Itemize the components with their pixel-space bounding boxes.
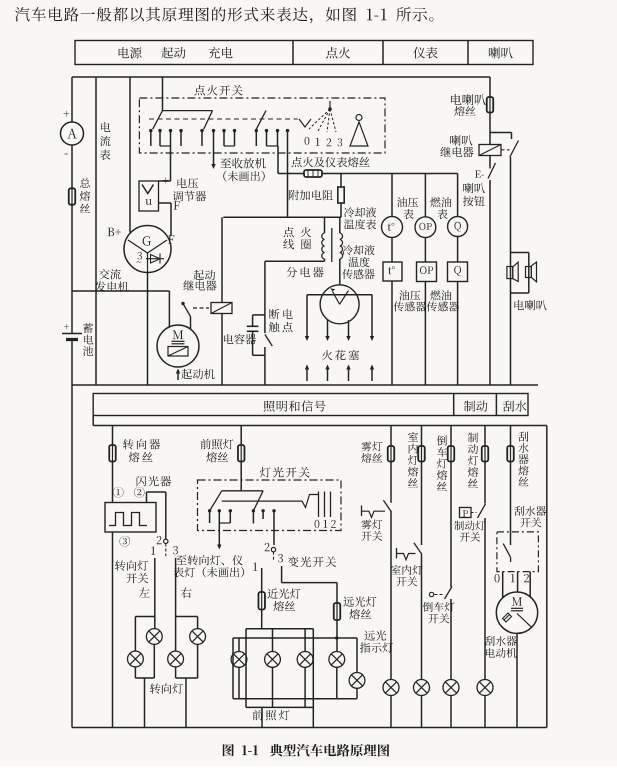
- label 刮水器电动机: [485, 636, 517, 658]
- lamp L7 前照灯3: [297, 629, 313, 708]
- label 左: [139, 587, 150, 597]
- lamp L3 转向灯 right front: [176, 617, 206, 679]
- wire: to radio 至收放机: [211, 146, 215, 169]
- wire: horn rail: [510, 157, 512, 385]
- wire: main bus above lighting band: [72, 384, 538, 386]
- label 闪光器: [137, 476, 172, 486]
- wire: room lamp rail: [421, 426, 423, 680]
- lamp L8 远光灯: [329, 652, 345, 699]
- lamp L9 远光指示灯: [349, 638, 365, 699]
- fuse F7 室内灯熔丝: [418, 446, 425, 462]
- label 刮水器开关: [514, 506, 546, 527]
- fuse F4 近光灯熔丝: [258, 592, 265, 610]
- switch S7 制动灯开关 P: [460, 504, 486, 518]
- label 电压调节器: [173, 178, 206, 201]
- wire: wiper rail: [510, 426, 512, 546]
- battery BT1 蓄电池: [62, 324, 82, 339]
- fuse F6 雾灯熔丝: [388, 446, 395, 462]
- label terminals 1 3: [253, 554, 283, 571]
- wire: lighting distribution bus: [93, 416, 547, 426]
- wire: headlamp bus upper: [246, 628, 313, 630]
- wire: top feed rail: [72, 76, 490, 78]
- label terminals 1 3: [151, 546, 178, 555]
- label terminal ②: [134, 487, 145, 498]
- wire: low beam fuse rail: [261, 568, 263, 629]
- label 点火开关: [195, 85, 243, 96]
- wire: flasher output to turn switch: [147, 492, 166, 539]
- label 冷却液温度传感器: [342, 245, 374, 279]
- lamp L13 制动灯: [477, 680, 493, 728]
- label F terminals: [168, 201, 180, 243]
- wire: turn switch links: [165, 544, 167, 557]
- fuse F8 电喇叭熔丝: [487, 97, 494, 113]
- wire: relay contact feed: [490, 133, 512, 140]
- label 附加电阻: [289, 190, 333, 200]
- generator G1 交流发电机: [124, 226, 171, 273]
- label 室内灯开关: [391, 565, 422, 586]
- label 转向灯: [150, 683, 183, 693]
- sensor 冷却液温度传感器: [383, 238, 402, 386]
- label 右: [181, 587, 192, 598]
- lamp L6 前照灯2: [265, 629, 281, 708]
- wire: right frame rail: [546, 426, 548, 728]
- label 电喇叭: [514, 300, 546, 310]
- wire: headlamp bottom brackets: [233, 699, 357, 728]
- wire: charge rail: [95, 77, 97, 385]
- fuse F9 倒车灯熔丝: [448, 446, 455, 462]
- sensor 油压传感器: [417, 238, 437, 385]
- switch: starter relay contact: [181, 302, 190, 329]
- wire: battery to starter feed: [72, 291, 169, 327]
- label B+: [108, 228, 121, 236]
- label 制动灯开关: [454, 521, 485, 542]
- wire: flasher ground rail: [112, 532, 114, 728]
- lamp L11 室内灯: [414, 680, 430, 728]
- wire: high beam rail: [335, 620, 338, 652]
- relay K1 喇叭继电器 coil: [479, 145, 501, 156]
- fuse F0 总熔丝: [69, 188, 76, 204]
- label 油压传感器: [394, 290, 426, 311]
- label 倒车灯开关: [423, 602, 455, 623]
- wire: coil primary to breaker: [265, 259, 325, 333]
- label 雾灯熔丝: [361, 441, 382, 462]
- wire: ignition to regulator +: [159, 146, 171, 181]
- wire: horn feed rail: [489, 77, 491, 385]
- label 喇叭继电器: [440, 135, 473, 157]
- label 燃油表: [430, 197, 451, 219]
- wire: left turn rail: [154, 558, 156, 629]
- wire: fog rail: [390, 426, 392, 680]
- label 交流发电机: [95, 269, 128, 292]
- wire: bottom ground rail: [72, 727, 547, 729]
- capacitor C1 电容器: [247, 315, 265, 355]
- wire: link below terminal 2: [273, 552, 275, 561]
- wire: relay link dash to contact: [501, 149, 510, 151]
- label 起动继电器: [183, 270, 216, 291]
- fuse F1 点火及仪表熔丝: [304, 170, 322, 177]
- switch S1 点火开关: [139, 98, 385, 153]
- flasher U3 闪光器: [105, 503, 156, 533]
- label 远光灯熔丝: [343, 596, 376, 619]
- wire: headlamp fuse rail: [240, 426, 242, 491]
- switch S8 刮水器开关: [495, 532, 539, 598]
- motor M5 刮水器电动机: [496, 592, 537, 633]
- node: turn switch terminal 2: [157, 536, 168, 544]
- label 灯光开关: [260, 467, 310, 478]
- switch S3 灯光开关: [198, 480, 342, 545]
- switch: horn relay contact: [510, 141, 519, 158]
- wire: reverse lamp rail: [450, 426, 452, 680]
- label 断电触点: [269, 309, 293, 332]
- wire: turn fuse rail: [112, 426, 114, 503]
- label 至收放机（未画出）: [220, 158, 265, 181]
- label 室内灯熔丝: [408, 432, 418, 487]
- wire: coil secondary to distributor: [339, 259, 341, 285]
- wire: generator output to bus: [147, 273, 149, 386]
- wire: spark plug leads: [305, 295, 374, 341]
- label 蓄电池: [83, 323, 93, 356]
- lamp L1 转向灯 left front: [127, 617, 154, 679]
- label terminal ③: [119, 536, 130, 547]
- label 至转向灯、仪表灯（未画出）: [173, 555, 244, 577]
- label 转向器熔丝: [123, 439, 160, 462]
- caption: figure title 图 1-1: [223, 744, 389, 757]
- label 制动灯熔丝: [468, 433, 478, 488]
- fuse F10 制动灯熔丝: [482, 446, 489, 462]
- label 起动机: [181, 369, 214, 379]
- meter M1 冷却液温度表: [382, 174, 403, 238]
- wire: regulator F to generator F: [159, 203, 172, 236]
- lamp L5 前照灯1: [231, 638, 247, 699]
- wire: headlamp bus lower: [233, 637, 357, 639]
- label 变光开关: [288, 556, 336, 567]
- label 燃油传感器: [427, 290, 459, 311]
- meter A1 ammeter 电流表: [61, 111, 84, 154]
- label 前照灯熔丝: [200, 439, 233, 462]
- label 雾灯开关: [361, 519, 382, 540]
- label 喇叭按钮: [463, 183, 485, 206]
- node: light switch terminal 2: [265, 543, 276, 552]
- label 近光灯熔丝: [267, 588, 300, 611]
- wire: feed into ignition switch: [162, 77, 164, 111]
- wire: wiper motor to ground rail: [516, 633, 518, 727]
- wire: spark gap electrodes: [305, 365, 374, 382]
- motor M4 起动机: [157, 325, 199, 367]
- wire: relay link dashes: [193, 307, 209, 309]
- label 点火及仪表熔丝: [292, 157, 370, 168]
- wire: headlamp frame verticals: [233, 629, 313, 728]
- meter M3 燃油表: [448, 174, 468, 237]
- wire: to panel lamps arrow: [217, 523, 221, 550]
- label 总熔丝: [80, 178, 90, 213]
- switch S6 倒车灯开关: [429, 587, 452, 600]
- label 远光指示灯: [360, 630, 393, 652]
- label 刮水器熔丝: [518, 432, 529, 487]
- relay K2 起动继电器 coil: [211, 303, 232, 314]
- fuse F2 转向器熔丝: [109, 445, 116, 462]
- label 电喇叭熔丝: [451, 94, 486, 116]
- regulator U1 电压调节器: [139, 177, 168, 211]
- fuse F3 前照灯熔丝: [238, 445, 245, 462]
- sensor 燃油传感器: [448, 237, 468, 386]
- label terminal ①: [113, 487, 124, 498]
- label 点火线圈: [283, 227, 311, 249]
- label 火花塞: [322, 350, 359, 360]
- wire: ignition to instrument fuse wire: [278, 146, 458, 174]
- wire: starter relay rail: [221, 217, 223, 385]
- label 转向灯开关: [115, 560, 148, 583]
- wire: starter output arrow: [176, 369, 180, 381]
- label 电容器: [224, 334, 256, 344]
- fuse F5 远光灯熔丝: [334, 603, 341, 620]
- inductor T1 点火线圈: [322, 217, 343, 262]
- label 冷却液温度表: [344, 207, 376, 229]
- label 电流表: [100, 122, 111, 160]
- lamp L2 转向灯 left rear: [135, 629, 162, 728]
- label 前照灯: [252, 710, 289, 720]
- switch S9 喇叭按钮: [475, 163, 496, 179]
- lamp L10 雾灯: [383, 680, 399, 728]
- distributor U2 分电器: [320, 285, 359, 324]
- fuse F11 刮水器熔丝: [507, 446, 514, 462]
- caption: intro sentence: [15, 7, 434, 23]
- meter M2 油压表: [415, 174, 436, 238]
- wire: generator B+ rail: [129, 77, 131, 232]
- wire: left battery rail: [71, 77, 73, 728]
- lamp L12 倒车灯: [443, 680, 459, 728]
- switch S5 室内灯开关: [397, 543, 423, 560]
- switch S2 断电触点: [265, 335, 272, 386]
- wire: dimmer to high beam fuse: [282, 566, 337, 603]
- node: lighting band 照明和信号/制动/刮水: [93, 394, 528, 416]
- lamp L4 转向灯 right rear: [168, 651, 198, 727]
- switch S4 雾灯开关: [362, 500, 392, 517]
- speaker LS1 电喇叭: [507, 253, 537, 294]
- label 分电器: [286, 267, 323, 277]
- node: section header band 电源/起动/充电/点火/仪表/喇叭: [75, 41, 533, 65]
- wire: brake lamp rail: [484, 426, 486, 680]
- resistor R1 附加电阻: [338, 174, 344, 218]
- wire: right turn rail: [175, 558, 177, 651]
- label 倒车灯熔丝: [437, 435, 447, 490]
- label 油压表: [397, 197, 418, 219]
- wire: coil feed from ignition: [223, 146, 341, 217]
